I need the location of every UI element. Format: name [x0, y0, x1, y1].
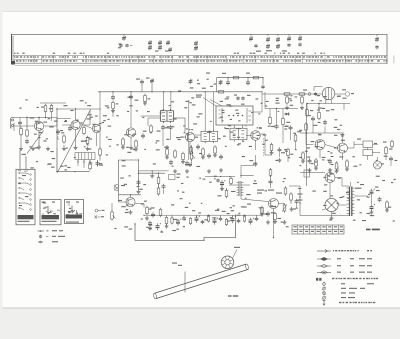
capacitor C5 — [68, 126, 72, 131]
electrolytic C64 — [370, 204, 375, 211]
trimmer C104 — [148, 40, 152, 50]
wire top rail — [217, 77, 264, 79]
phase circle — [325, 198, 338, 211]
ground TR1 — [37, 145, 41, 149]
type number TR1384 — [366, 229, 371, 231]
gang section C1e — [298, 34, 302, 46]
af transistor TR9 — [126, 197, 135, 206]
wire c4 r5 — [57, 137, 59, 141]
capacitor C11 — [129, 94, 133, 99]
trimmer C106 — [166, 40, 170, 45]
wire t4 drops — [233, 125, 235, 128]
wire det rail — [265, 108, 298, 110]
resistor R66 — [386, 200, 389, 210]
wire rf link2 — [44, 125, 57, 127]
resistor R35 — [385, 146, 388, 156]
wire bias rail — [40, 102, 66, 104]
resistor R41 — [165, 216, 168, 226]
junction dots rf — [26, 117, 27, 118]
osc coil T1 — [160, 109, 174, 123]
volume pot VR1 — [185, 150, 195, 165]
wire row stubs — [171, 215, 173, 217]
resistor R19 — [202, 147, 205, 157]
rod pointer line — [184, 272, 186, 293]
transistor TR2 — [71, 120, 80, 129]
module pin label — [225, 128, 229, 129]
legend row9 symbol — [322, 296, 326, 300]
resistor R62 — [274, 212, 277, 222]
capacitor C44 — [201, 220, 205, 225]
resistor R37 — [157, 176, 160, 186]
wire af r37 — [158, 173, 160, 177]
resistor R25 — [294, 133, 297, 143]
wire tr9 col — [130, 195, 132, 198]
resistor R9 — [89, 162, 92, 170]
resistor R72 on rail — [298, 93, 306, 95]
gang section C1a — [249, 34, 258, 47]
legend row2 symbol — [317, 257, 331, 260]
value label c12 — [136, 79, 140, 80]
capacitor C2 — [18, 120, 22, 125]
box2 top specks — [42, 202, 46, 203]
legend row1 symbol — [317, 249, 331, 252]
wire mid bus c — [240, 174, 253, 176]
valve top rail — [314, 86, 323, 88]
resistor R15 — [166, 147, 169, 157]
ground G10 — [278, 158, 282, 162]
ground out — [370, 210, 374, 214]
capacitor C62 — [295, 199, 299, 204]
legend row3 text — [337, 265, 341, 266]
legend row8 symbol — [323, 291, 326, 296]
wire out link — [321, 215, 349, 217]
resistor R24 — [282, 117, 285, 127]
legend row4 symbol — [317, 271, 331, 274]
mixer transistor TR4 — [126, 128, 135, 137]
wire bottom row bus — [144, 214, 262, 216]
transistor TR3 — [92, 124, 100, 132]
capacitor C27 — [289, 125, 293, 130]
wire osc vertical — [56, 109, 58, 148]
wire out right — [355, 195, 369, 197]
wire stage2 rail — [57, 108, 101, 110]
wire rf col1 — [19, 118, 21, 121]
specks bottom row — [230, 207, 232, 208]
grid resistor R28 — [306, 108, 309, 118]
transistor TR1 — [34, 121, 43, 130]
capacitor C65 — [378, 197, 382, 202]
junction dots rail — [227, 77, 228, 78]
resistor R1 — [20, 127, 23, 137]
resistor R22 — [252, 77, 260, 79]
wavechange switch box S1 — [16, 169, 35, 225]
gang section C1d — [287, 34, 291, 47]
bead on rail — [308, 93, 311, 96]
trimmer C108 — [194, 41, 198, 51]
voltage table — [292, 225, 344, 234]
output transistor TR10 — [269, 199, 279, 209]
volume control VR2 — [111, 210, 116, 221]
wire r76 — [270, 176, 272, 180]
resistor R42 — [171, 217, 173, 225]
wire af vert1 — [117, 160, 119, 195]
lamp LP1 — [374, 161, 382, 169]
wire tr8 col — [348, 147, 355, 149]
legend row6 text — [341, 283, 345, 284]
parts table text row 2 — [14, 60, 388, 61]
wire drop sw1 — [19, 150, 21, 169]
legend row3 symbol — [317, 264, 331, 267]
parts table column separators — [34, 55, 394, 63]
wire tr6 gnd — [254, 162, 258, 166]
resistor R14 — [150, 124, 153, 134]
trimmer C13 — [150, 78, 154, 91]
value specks rail — [206, 73, 210, 74]
resistor R36 — [391, 140, 394, 149]
wire osc drop — [112, 109, 114, 117]
wire coil drops — [162, 130, 164, 146]
wire input rail — [15, 117, 58, 119]
resistor R65 — [284, 186, 287, 196]
resistor R32 — [315, 158, 318, 168]
wire tr11 links — [329, 183, 331, 199]
capacitor C76 — [269, 179, 273, 184]
wire out link2 — [338, 204, 347, 206]
legend row10 symbol — [323, 300, 326, 306]
capacitor C71 — [241, 96, 244, 100]
wire stage2 base rail — [57, 118, 71, 120]
capacitor C29 — [311, 116, 315, 121]
speck v1 — [318, 108, 322, 109]
resistor R10 — [112, 101, 115, 111]
trimmer C101 — [122, 34, 126, 41]
resistor R60 — [225, 189, 228, 199]
resistor R39 — [146, 206, 149, 216]
resistor R29 — [318, 111, 321, 121]
wire b-plus vertical — [306, 132, 307, 133]
wire tr7 em — [319, 150, 321, 159]
wire tr7 base — [306, 144, 313, 146]
ground G12 — [137, 190, 141, 194]
rod type label — [228, 295, 232, 296]
capacitor C61 — [266, 211, 270, 216]
gang value labels — [118, 43, 287, 51]
wire af mid bus — [143, 204, 145, 208]
electrolytic C46 — [213, 218, 218, 225]
capacitor C21 — [219, 154, 223, 159]
wire det out — [279, 153, 281, 157]
parts table rules — [13, 55, 387, 65]
resistor R20 — [214, 145, 217, 155]
legend row2 text — [337, 258, 341, 259]
agc diagonal wire — [27, 131, 44, 154]
thermistor R63 — [282, 203, 287, 213]
legend row6 symbol — [323, 282, 326, 287]
IF amp TR6 — [251, 131, 261, 141]
module box U1 — [216, 106, 253, 125]
wire IF supply rail — [98, 91, 262, 93]
wire phase in — [322, 209, 326, 210]
wire gang to rail — [97, 160, 99, 167]
wire af vert2 — [138, 160, 140, 190]
ground G5 — [86, 147, 90, 151]
switch box S2 — [40, 200, 61, 225]
aux symbol 1 — [95, 209, 105, 212]
electrolytic C52 — [249, 218, 254, 225]
legend row4 text — [337, 272, 341, 273]
resistor R11 — [144, 94, 147, 104]
label drv1 — [257, 190, 264, 191]
capacitor C47 — [219, 217, 223, 222]
electrolytic C49 — [231, 216, 236, 223]
resistor R76 — [269, 168, 272, 177]
legend row10 text — [339, 302, 375, 303]
wire step link — [241, 163, 258, 178]
wire TR2 top — [75, 109, 77, 120]
capacitor C14 — [161, 125, 165, 130]
legend row5 symbol — [316, 278, 318, 281]
wire bplus link — [306, 104, 308, 187]
resistor R30 — [305, 122, 308, 132]
resistor R38 — [157, 186, 160, 196]
resistor R13 — [135, 139, 138, 149]
wire agc long — [191, 145, 193, 151]
legend row7 text — [341, 288, 346, 289]
legend row9 text — [341, 297, 346, 298]
capacitor C23 — [226, 78, 230, 86]
resistor R3 — [44, 104, 47, 114]
wire bat — [299, 186, 301, 190]
IF transformer T4 — [230, 126, 247, 141]
bias box1 — [363, 141, 373, 148]
resistor R18 — [190, 146, 193, 156]
ground G13 — [129, 210, 133, 214]
capacitor C41 — [182, 216, 186, 221]
resistor R2 — [26, 128, 29, 138]
wire det to af — [191, 160, 193, 166]
ground G4 — [62, 147, 66, 151]
wire TR1 emitter — [38, 131, 40, 146]
resistor R4 — [50, 104, 53, 114]
specks out — [360, 184, 364, 185]
ground G1b — [19, 147, 23, 151]
rod dimension label — [172, 263, 177, 264]
top cap terminal — [345, 92, 349, 96]
driver transformer T5 — [237, 181, 244, 196]
wire if rail drops — [163, 92, 165, 111]
resistor R17 — [182, 152, 185, 162]
module leader line 1 — [203, 98, 216, 107]
resistor R70 on rail — [217, 91, 225, 93]
wire tr78 — [325, 145, 337, 149]
wire mid bus a — [140, 170, 169, 172]
valve V1 — [322, 87, 334, 103]
capacitor C34 — [137, 180, 141, 185]
wire if chain 1 — [174, 117, 185, 119]
capacitor C72 — [314, 92, 317, 96]
legend row8 text — [341, 292, 346, 293]
tuning gang block — [75, 153, 95, 163]
resistor R8 — [99, 147, 102, 157]
wire det link — [261, 91, 263, 93]
wire if1 link — [141, 115, 161, 117]
wire mixer drop — [130, 92, 132, 128]
wire af bottom link — [118, 194, 141, 196]
wire t3 drops — [204, 92, 206, 131]
wire v1 sub — [312, 122, 314, 133]
agc dashed line — [263, 138, 265, 156]
parts table text row 1 — [14, 56, 386, 57]
module leader line 2 — [210, 100, 222, 107]
wire tr6 links — [246, 135, 251, 137]
legend row1 text — [333, 250, 372, 251]
trimmer C107 — [168, 47, 172, 52]
ground G23 — [148, 226, 152, 230]
capacitor C4 — [56, 129, 60, 134]
resistor R71 on rail — [283, 93, 291, 95]
resistor R51 — [225, 218, 227, 226]
ground G6 — [165, 145, 169, 149]
capacitor C16 — [141, 133, 145, 138]
capacitor C26 — [275, 124, 279, 129]
ground G8 — [185, 169, 189, 173]
trimmer pair C102/C103 — [119, 44, 132, 48]
wire v1 drops — [306, 104, 308, 109]
bias box2 — [363, 150, 373, 156]
wire out right rail — [289, 185, 300, 187]
resistor R23 — [269, 116, 272, 126]
aerial input jack — [11, 118, 15, 132]
wire tr10 to bus — [273, 213, 275, 238]
wire mix coil — [130, 137, 132, 146]
resistor R26 — [270, 143, 273, 153]
component value labels — [90, 117, 94, 118]
IF amp TR5 — [185, 132, 194, 141]
switch legend row 1 — [38, 230, 64, 232]
capacitor C32 — [328, 159, 332, 164]
wire drop sw2 — [25, 156, 27, 169]
wire drv links — [221, 187, 223, 191]
wire tr3 links — [84, 125, 92, 129]
electrolytic C40 — [176, 219, 181, 226]
wire t6 top — [342, 185, 349, 187]
specks right mid — [357, 139, 361, 140]
resistor R64 — [290, 192, 293, 202]
capacitor C20 — [207, 153, 211, 158]
IF transformer T3 — [201, 130, 218, 144]
diode D1 — [284, 113, 290, 116]
ground tr2 — [74, 146, 78, 150]
speck mod2 — [234, 95, 237, 96]
wire v1 bias — [300, 132, 344, 134]
capacitor C3 — [25, 139, 29, 144]
gang section C1c — [276, 34, 280, 49]
ground G7 — [173, 169, 177, 173]
wire r3 drops — [45, 113, 47, 117]
junction dot J2 — [130, 91, 131, 92]
switch legend row 3 — [38, 241, 58, 243]
wire TR1 collector — [38, 118, 40, 122]
resistor R12 — [122, 137, 125, 147]
transistor TR8 — [338, 143, 348, 153]
wire out bus2 — [235, 215, 237, 222]
pickup connector — [115, 184, 125, 190]
wire v1 lower rail — [307, 103, 350, 105]
ground mid a — [151, 171, 153, 174]
trimmer C105 — [158, 40, 162, 50]
capacitor C35 — [162, 184, 166, 189]
wire gang links — [77, 163, 79, 167]
capacitor C18 — [185, 161, 189, 166]
wire right drop — [99, 146, 101, 149]
junction dot bus — [56, 171, 57, 172]
resistor R6 — [83, 126, 86, 136]
electrolytic C38 — [156, 223, 161, 230]
feedback diagonal wire — [58, 110, 91, 173]
IF transformer T2 — [161, 109, 174, 123]
wire out top — [300, 172, 325, 174]
capacitor C75 — [216, 179, 219, 183]
wire drv — [229, 184, 237, 186]
capacitor C53 — [255, 217, 259, 222]
resistor R27 — [287, 148, 290, 158]
wire t1 to tr4 — [148, 117, 160, 119]
capacitor C37 — [148, 221, 152, 226]
resistor R73 — [285, 95, 289, 109]
resistor R16 — [174, 149, 177, 159]
transistor TR7 — [315, 140, 325, 150]
capacitor C28 — [278, 147, 282, 152]
value annotation specks — [109, 146, 111, 147]
wire det vert — [264, 92, 266, 109]
wire module right — [253, 111, 262, 113]
electrolytic C43 — [195, 216, 200, 223]
wire right boxes — [354, 143, 363, 145]
wire tr2 emitter — [75, 130, 77, 146]
resistor R45 — [189, 217, 191, 225]
wire det c27 — [290, 131, 292, 140]
coil leader line — [233, 250, 238, 259]
wire long vert x188 — [188, 100, 190, 132]
capacitor C15 — [169, 125, 173, 130]
ground G22 — [111, 109, 115, 113]
resistor R75 — [230, 177, 233, 186]
capacitor C70 — [236, 96, 239, 100]
tuning strip frame — [12, 34, 388, 65]
ferrite rod — [153, 264, 249, 299]
wire af branch — [139, 172, 166, 174]
wire input drop — [26, 118, 28, 129]
output transformer T6 — [347, 187, 355, 217]
resistor R33 — [335, 161, 338, 171]
ground G11 — [308, 168, 312, 172]
ground G20 — [165, 155, 169, 159]
trimmer C109 — [375, 34, 379, 49]
wire module drop — [229, 125, 231, 127]
capacitor C33 — [389, 156, 393, 161]
resistor R48 — [207, 215, 209, 223]
wire if rail left drop — [99, 92, 101, 146]
resistor R5 — [63, 134, 66, 144]
agc label — [22, 154, 27, 155]
resistor R61 — [261, 206, 264, 216]
ground G9 — [207, 169, 211, 173]
filter box F1 — [169, 174, 181, 180]
resistor R31 — [302, 151, 305, 161]
resistor R34 — [346, 159, 349, 169]
electrolytic C60 — [220, 180, 225, 187]
capacitor C31 — [308, 158, 312, 163]
